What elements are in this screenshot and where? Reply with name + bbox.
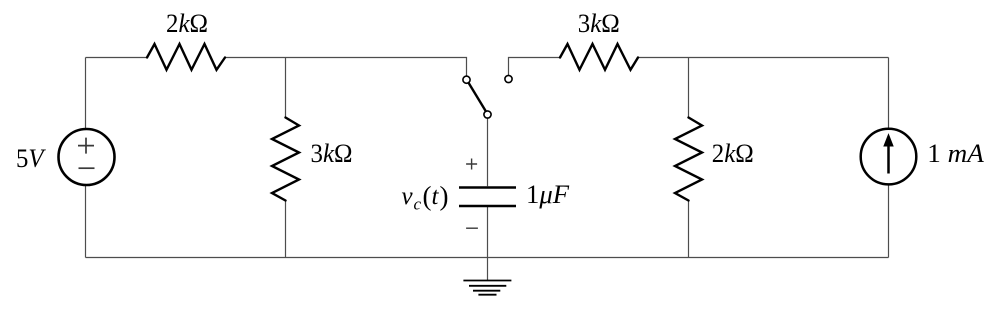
resistor R 3kOhm horizontal xyxy=(560,44,638,70)
wire 3k-vertical upper stub xyxy=(285,58,287,118)
wire 3k-vertical lower stub xyxy=(285,201,287,258)
voltage source V1 circle xyxy=(59,129,115,185)
svg-text:2kΩ: 2kΩ xyxy=(712,139,754,168)
svg-text:vc(t): vc(t) xyxy=(402,181,449,214)
capacitor plus polarity mark xyxy=(466,159,477,170)
capacitor C 1uF top plate xyxy=(459,186,516,189)
wire 2k-vertical upper stub xyxy=(688,58,690,118)
resistor R 2kOhm vertical xyxy=(675,118,702,201)
resistor R 3kOhm vertical xyxy=(272,118,299,201)
switch blade xyxy=(469,83,486,112)
svg-text:1 mA: 1 mA xyxy=(927,139,984,168)
current source I1 circle xyxy=(861,129,917,185)
wire left rail upper xyxy=(85,58,87,131)
wire right rail lower xyxy=(888,185,890,258)
wire top rail right of switch to 3k resistor xyxy=(509,58,561,76)
svg-text:3kΩ: 3kΩ xyxy=(311,139,353,168)
svg-text:2kΩ: 2kΩ xyxy=(166,9,208,38)
wire left rail lower xyxy=(85,184,87,258)
switch left contact circle xyxy=(463,76,470,83)
voltage source plus sign xyxy=(78,138,94,154)
svg-text:1μF: 1μF xyxy=(526,180,570,209)
current source arrow head xyxy=(884,135,893,147)
svg-text:5V: 5V xyxy=(16,144,46,173)
ground symbol xyxy=(463,281,511,295)
wire right rail upper xyxy=(888,58,890,130)
switch right contact circle xyxy=(505,75,512,82)
wire bottom rail to ground xyxy=(487,258,489,281)
wire top-left rail xyxy=(86,57,148,59)
capacitor C 1uF bottom plate xyxy=(459,205,516,208)
svg-text:3kΩ: 3kΩ xyxy=(578,9,620,38)
resistor R 2kOhm horizontal xyxy=(147,44,225,70)
wire switch pole to capacitor xyxy=(487,118,489,186)
wire bottom rail xyxy=(86,257,889,259)
voltage source minus sign xyxy=(79,167,95,169)
current source arrow shaft xyxy=(887,145,890,174)
wire top rail between 2k resistor and switch xyxy=(225,58,467,77)
wire capacitor to bottom rail xyxy=(487,207,489,258)
capacitor minus polarity mark xyxy=(466,227,478,229)
wire 2k-vertical lower stub xyxy=(688,201,690,258)
switch pole circle xyxy=(484,111,491,118)
wire top rail right of 3k resistor to top-right corner xyxy=(638,57,889,59)
